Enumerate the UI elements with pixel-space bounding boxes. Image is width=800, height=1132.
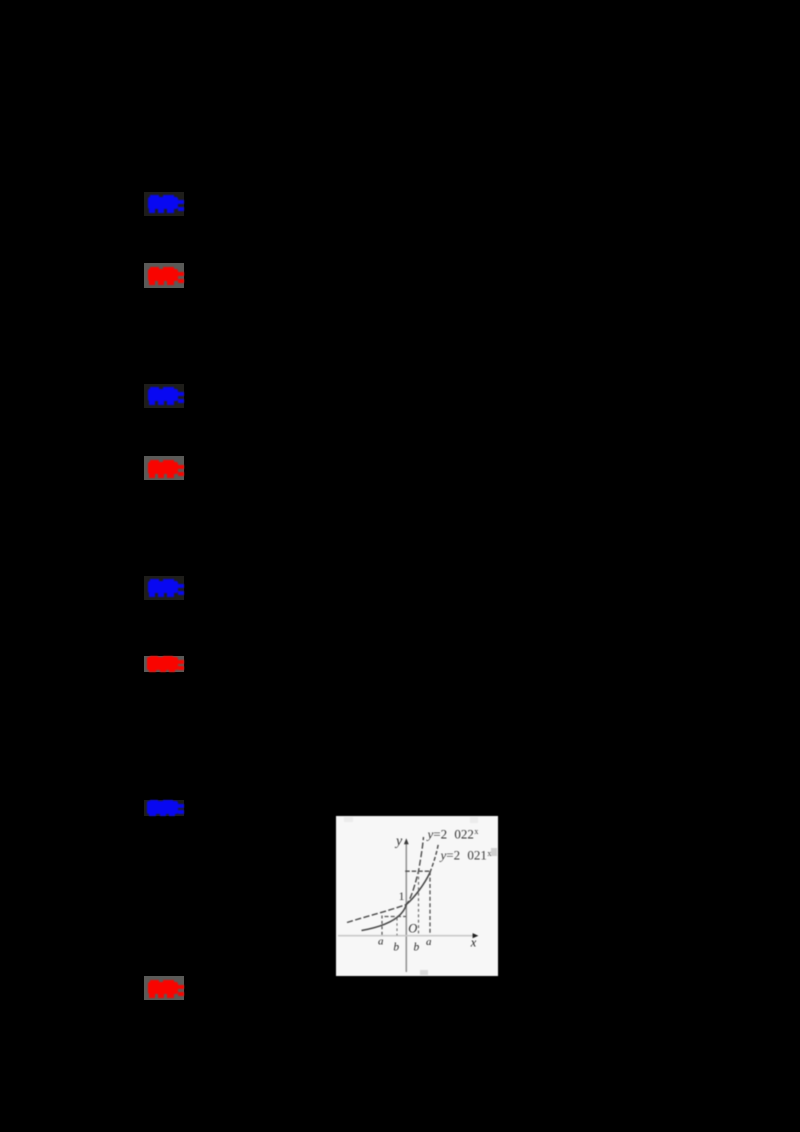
dashed guide: vertical at b (right) xyxy=(418,871,420,935)
badge red 3 (short) xyxy=(144,656,184,672)
svg-text:1: 1 xyxy=(399,889,405,903)
badge blue 3 xyxy=(144,576,184,600)
svg-text:O: O xyxy=(408,922,417,936)
smudge right-mid xyxy=(491,848,497,856)
svg-text:a: a xyxy=(426,936,432,948)
svg-text:x: x xyxy=(470,936,477,950)
badge red 1 xyxy=(144,263,184,288)
curve y=2.021^x (solid, shallow) xyxy=(362,873,431,931)
dashed guide: vertical at a (left) xyxy=(381,916,383,936)
dashed guide: vertical at a (right) xyxy=(429,871,431,935)
dashed guide: horizontal lower short xyxy=(385,916,407,918)
dashed guide: horizontal upper xyxy=(405,870,430,872)
badge blue 2 xyxy=(144,384,184,408)
dashed guide: vertical at b (left) xyxy=(396,918,398,935)
badge red 2 xyxy=(144,456,184,480)
graph figure xyxy=(336,816,498,976)
x-axis xyxy=(338,933,478,938)
svg-text:y: y xyxy=(394,834,403,849)
badge blue 1 xyxy=(144,192,184,216)
svg-text:b: b xyxy=(414,942,420,954)
smudge bottom-center xyxy=(420,970,428,975)
curve y=2.022^x (dashed, steep) xyxy=(347,837,424,923)
white background of scanned figure xyxy=(336,816,498,976)
svg-text:b: b xyxy=(393,942,399,954)
badge blue 4 (short) xyxy=(144,800,184,816)
badge red 4 xyxy=(144,976,184,1000)
smudge top-right xyxy=(470,817,478,823)
svg-text:a: a xyxy=(378,936,384,948)
curve y=2.021^x upper dashed tip xyxy=(430,843,439,873)
smudge top-left xyxy=(344,817,353,822)
y-axis xyxy=(404,838,409,972)
